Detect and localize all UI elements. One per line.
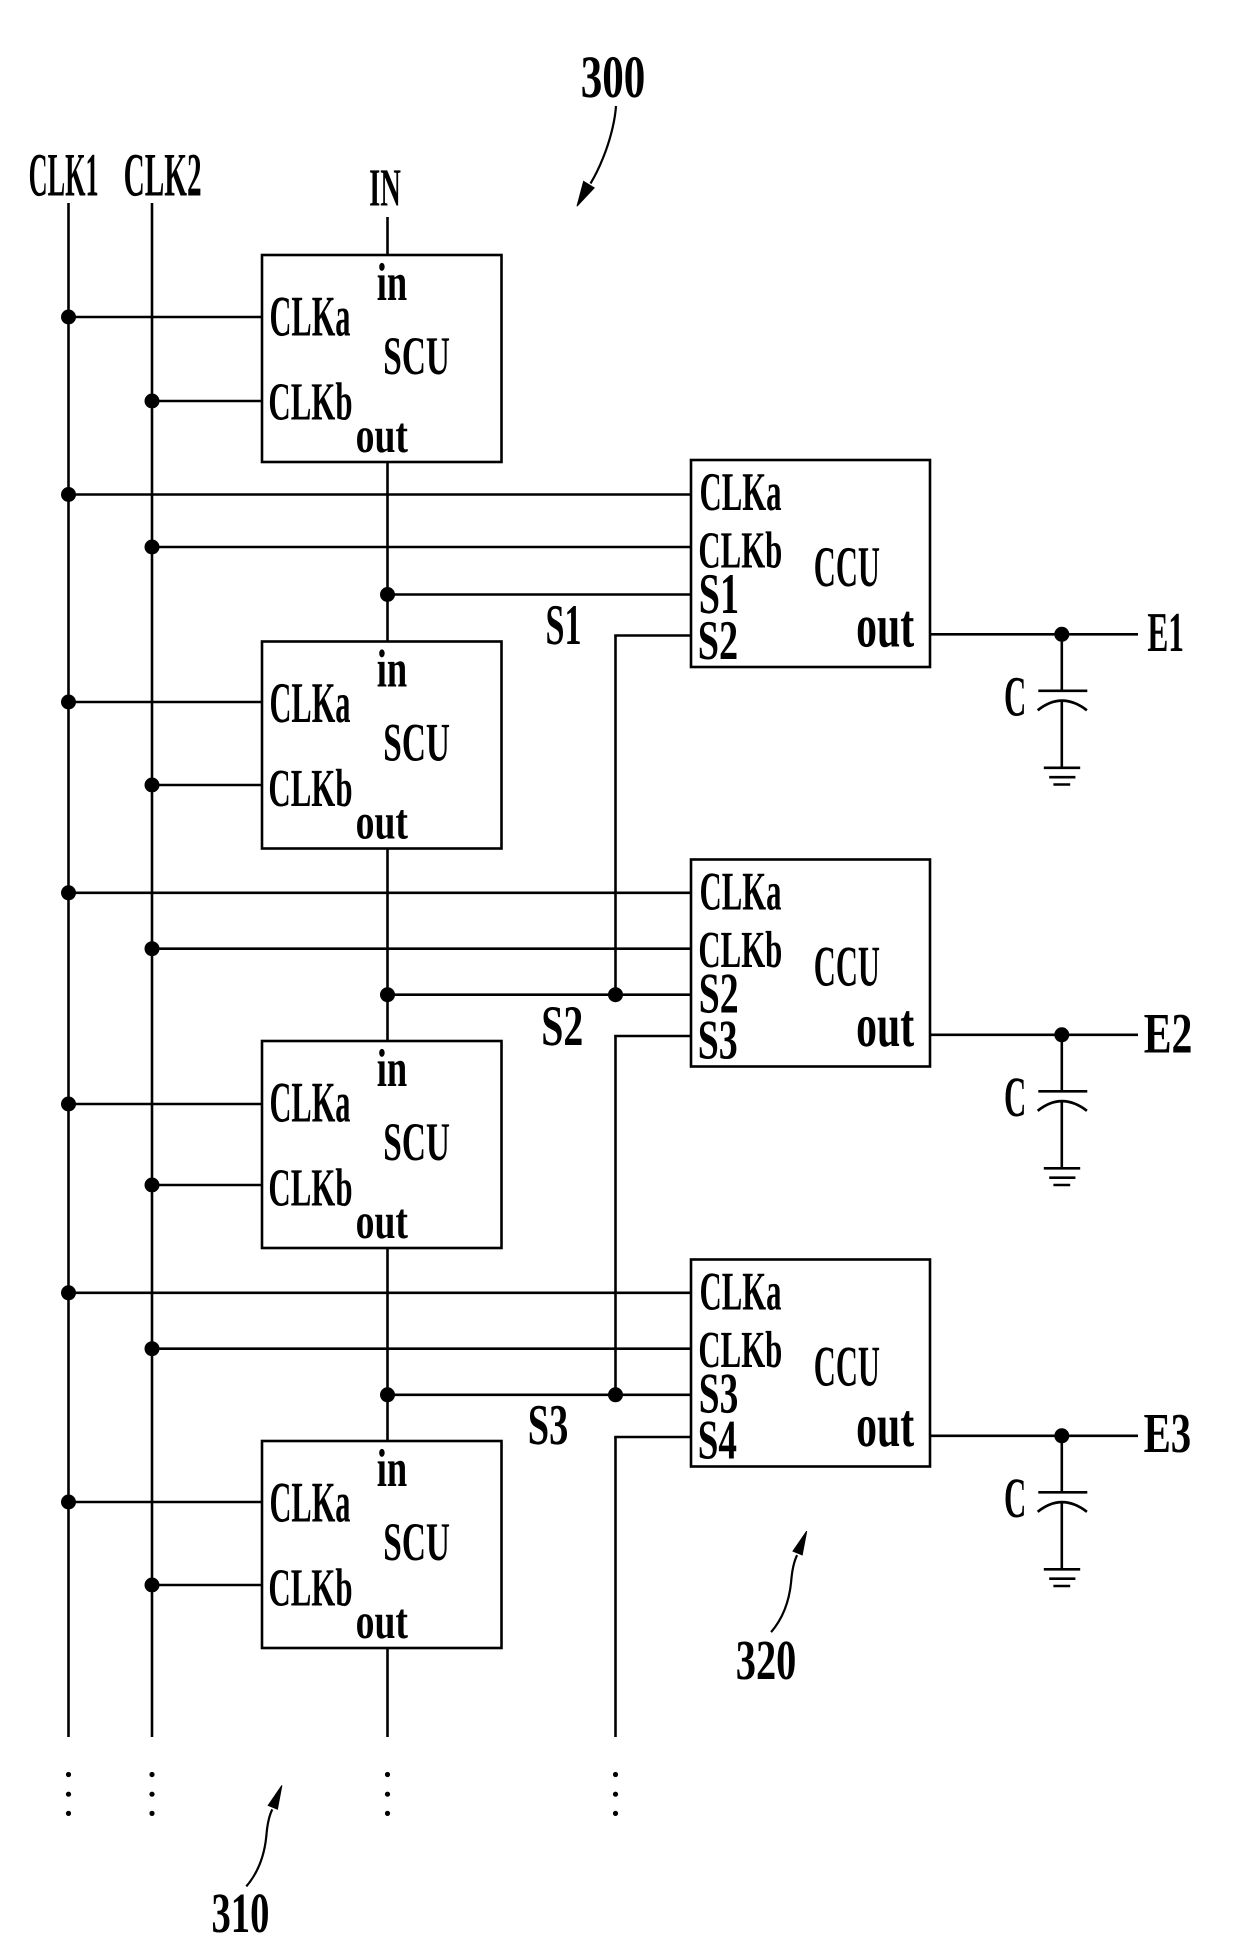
svg-text:C: C bbox=[1004, 1467, 1026, 1530]
svg-text:out: out bbox=[856, 592, 914, 660]
svg-text:out: out bbox=[356, 1193, 408, 1249]
svg-text:out: out bbox=[856, 1392, 914, 1460]
svg-text:CLKb: CLKb bbox=[268, 758, 352, 818]
svg-text:in: in bbox=[377, 1438, 407, 1498]
svg-text:CCU: CCU bbox=[814, 1336, 880, 1399]
svg-text:300: 300 bbox=[581, 44, 646, 111]
svg-text:CLKb: CLKb bbox=[268, 1158, 352, 1218]
svg-text:C: C bbox=[1004, 666, 1026, 729]
svg-text:E3: E3 bbox=[1144, 1403, 1192, 1465]
svg-text:CLKa: CLKa bbox=[270, 286, 351, 349]
svg-text:SCU: SCU bbox=[383, 712, 450, 772]
svg-text:310: 310 bbox=[212, 1882, 270, 1945]
svg-text:in: in bbox=[377, 1038, 407, 1098]
svg-text:CLKa: CLKa bbox=[270, 1472, 351, 1535]
svg-text:out: out bbox=[356, 793, 408, 849]
svg-text:CLKa: CLKa bbox=[700, 1260, 782, 1321]
svg-text:CLKa: CLKa bbox=[700, 860, 782, 921]
svg-text:CLKa: CLKa bbox=[270, 672, 351, 735]
svg-text:CLKb: CLKb bbox=[268, 372, 352, 432]
svg-text:out: out bbox=[356, 407, 408, 463]
svg-text:CCU: CCU bbox=[814, 936, 880, 999]
svg-text:out: out bbox=[356, 1593, 408, 1649]
svg-text:CCU: CCU bbox=[814, 536, 880, 599]
svg-text:in: in bbox=[377, 252, 407, 312]
svg-text:S2: S2 bbox=[541, 995, 583, 1058]
svg-text:CLK2: CLK2 bbox=[124, 141, 202, 209]
svg-text:in: in bbox=[377, 638, 407, 698]
svg-text:CLKb: CLKb bbox=[268, 1558, 352, 1618]
svg-text:SCU: SCU bbox=[383, 1512, 450, 1572]
svg-text:S3: S3 bbox=[528, 1392, 569, 1457]
svg-text:out: out bbox=[856, 992, 914, 1060]
svg-text:C: C bbox=[1004, 1066, 1026, 1129]
svg-text:320: 320 bbox=[736, 1630, 797, 1692]
svg-text:S1: S1 bbox=[546, 594, 582, 657]
svg-text:CLKa: CLKa bbox=[270, 1072, 351, 1135]
svg-text:SCU: SCU bbox=[383, 326, 450, 386]
svg-text:IN: IN bbox=[369, 158, 401, 218]
svg-text:CLKa: CLKa bbox=[700, 461, 782, 522]
svg-text:CLK1: CLK1 bbox=[29, 141, 99, 209]
svg-text:S3: S3 bbox=[698, 1010, 738, 1072]
svg-text:E1: E1 bbox=[1147, 602, 1184, 664]
svg-text:S4: S4 bbox=[698, 1410, 737, 1472]
svg-text:SCU: SCU bbox=[383, 1112, 450, 1172]
svg-text:S2: S2 bbox=[698, 610, 738, 672]
svg-text:E2: E2 bbox=[1144, 1002, 1193, 1065]
